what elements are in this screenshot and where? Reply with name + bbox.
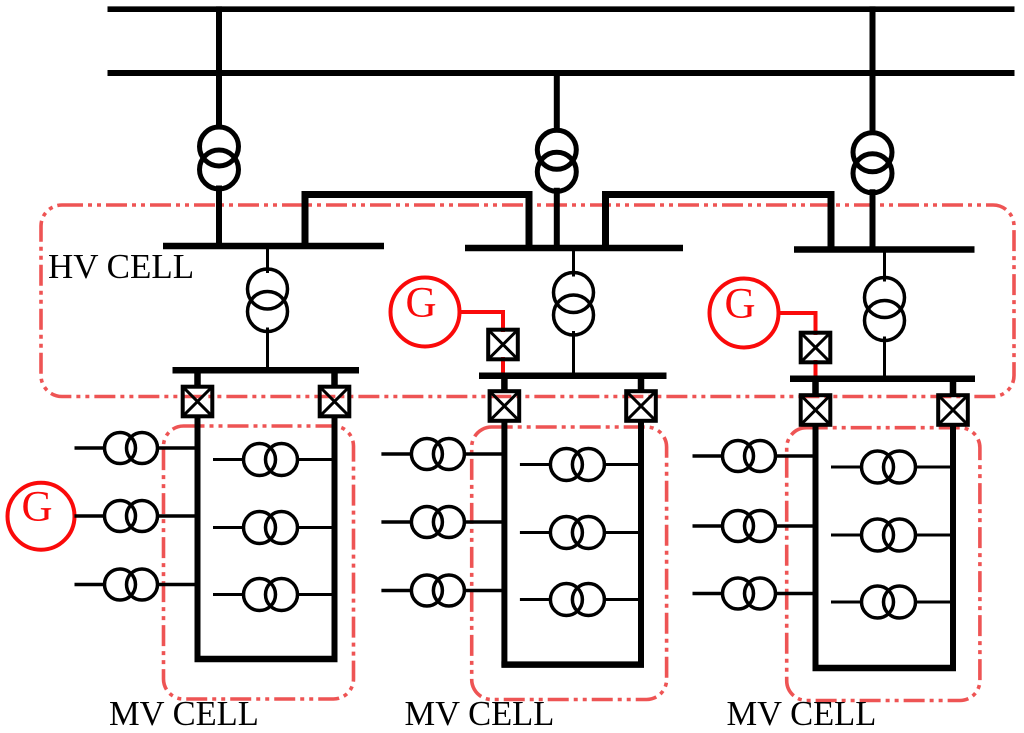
wire feeder into transformer TD13 <box>75 583 106 587</box>
svg-text:MV CELL: MV CELL <box>727 695 877 733</box>
wire feeder into transformer TD31 <box>693 454 724 458</box>
wire transformer TL31 to loop right leg <box>915 466 953 469</box>
wire MV busbar 1 to breaker CB1b <box>331 370 338 387</box>
wire feeder into transformer TD22 <box>381 520 412 524</box>
wire breaker CB1a to loop (left leg) <box>195 416 201 662</box>
wire HV busbar 2 to transformer TM2 <box>572 248 575 277</box>
svg-text:MV CELL: MV CELL <box>109 695 259 733</box>
wire transformer TD23 to loop left leg <box>464 589 505 593</box>
wire stub to transformer TL22 <box>520 531 551 534</box>
wire T1 to HV busbar 1 <box>216 186 222 249</box>
wire G2 to breaker (red) <box>460 312 504 332</box>
breaker CB1a <box>183 387 213 417</box>
wire HV busbar 3 to transformer TM3 <box>883 250 886 282</box>
wire feeder into transformer TD33 <box>693 592 724 596</box>
wire transformer TD21 to loop left leg <box>464 452 505 456</box>
wire HV busbar 1 to transformer TM1 <box>266 246 269 273</box>
wire transformer TD31 to loop left leg <box>775 454 816 458</box>
HV busbar 3 <box>794 246 975 253</box>
wire transformer TL22 to loop right leg <box>604 531 641 534</box>
transformer TD33 (distribution, two windings) <box>723 578 776 609</box>
wire transformer TD33 to loop left leg <box>775 592 816 596</box>
wire feeder into transformer TD11 <box>75 446 106 450</box>
transformer TM1 (HV/MV, two windings) <box>248 269 288 332</box>
tie line busbar1 to busbar2 <box>305 195 529 251</box>
wire transformer TD32 to loop left leg <box>775 524 816 528</box>
wire transformer TL23 to loop right leg <box>604 598 641 601</box>
wire grid bus to transformer T1 <box>216 6 222 128</box>
transformer TD31 (distribution, two windings) <box>723 441 776 472</box>
MV loop bottom bar 3 <box>813 665 957 672</box>
wire T3 to HV busbar 3 <box>870 189 876 251</box>
transformer TL32 (loop transformer, two windings) <box>862 519 916 551</box>
wire transformer TL12 to loop right leg <box>297 526 335 529</box>
wire transformer TL32 to loop right leg <box>915 534 953 537</box>
wire stub to transformer TL31 <box>831 466 862 469</box>
MV busbar 2 <box>479 372 667 379</box>
transformer TD11 (distribution, two windings) <box>105 433 158 464</box>
transformer TD23 (distribution, two windings) <box>411 575 464 606</box>
transformer TL31 (loop transformer, two windings) <box>862 451 916 483</box>
wire grid bus to transformer T3 <box>870 6 876 134</box>
wire stub to transformer TL12 <box>213 526 244 529</box>
tie line busbar2 to busbar3 <box>606 195 832 253</box>
breaker CB2G (generator breaker) <box>488 330 518 360</box>
wire TM2 to MV busbar 2 <box>572 331 575 376</box>
wire MV busbar 3 to breaker CB3a <box>812 379 819 396</box>
wire stub to transformer TL11 <box>213 458 244 461</box>
transformer TL23 (loop transformer, two windings) <box>550 584 604 616</box>
wire T2 to HV busbar 2 <box>554 188 560 250</box>
HV CELL boundary (red dash-dot rounded rect) <box>41 205 1014 397</box>
transformer TD13 (distribution, two windings) <box>105 569 158 600</box>
transformer TD21 (distribution, two windings) <box>411 439 464 470</box>
MV CELL 3 boundary (red dash-dot rounded rect) <box>787 428 980 701</box>
breaker CB3b <box>938 395 968 425</box>
HV busbar 1 <box>163 243 384 250</box>
wire MV busbar 3 to breaker CB3b <box>950 379 957 396</box>
wire breaker CB2a to loop (left leg) <box>501 420 507 667</box>
wire MV busbar 2 to breaker CB2b <box>638 376 645 392</box>
breaker CB3G (generator breaker) <box>801 333 831 363</box>
wire feeder into transformer TD21 <box>381 452 412 456</box>
wire stub to transformer TL32 <box>831 534 862 537</box>
wire G3 to breaker (red) <box>779 313 816 335</box>
transformer TL33 (loop transformer, two windings) <box>862 586 916 618</box>
MV CELL 2 boundary (red dash-dot rounded rect) <box>472 427 667 700</box>
transformer TD32 (distribution, two windings) <box>723 511 776 542</box>
breaker CB2a <box>490 391 520 421</box>
transformer TL21 (loop transformer, two windings) <box>550 449 604 481</box>
wire MV busbar 1 to breaker CB1a <box>194 370 201 387</box>
MV loop bottom bar 1 <box>195 656 338 663</box>
transformer TM3 (HV/MV, two windings) <box>865 278 905 341</box>
wire breaker CB3a to loop (left leg) <box>813 424 819 670</box>
wire transformer TL13 to loop right leg <box>297 593 335 596</box>
generator G3 <box>710 279 779 348</box>
HV grid bus 2 <box>108 70 1015 76</box>
wire breaker CB1b to loop (right leg) <box>332 416 338 662</box>
wire transformer TL21 to loop right leg <box>604 463 641 466</box>
transformer T3 (grid HV/HV, two windings) <box>853 133 892 193</box>
wire feeder into transformer TD12 <box>75 514 106 518</box>
breaker CB2b <box>626 391 656 421</box>
transformer TL12 (loop transformer, two windings) <box>244 512 298 544</box>
transformer T2 (grid HV/HV, two windings) <box>537 130 576 191</box>
HV grid bus 1 (top) <box>108 6 1015 12</box>
MV busbar 1 <box>173 367 360 374</box>
transformer TL11 (loop transformer, two windings) <box>244 444 298 476</box>
wire MV busbar 2 to breaker CB2a <box>501 376 508 392</box>
wire transformer TL33 to loop right leg <box>915 601 953 604</box>
transformer TD12 (distribution, two windings) <box>105 501 158 532</box>
HV busbar 2 <box>465 245 683 252</box>
wire feeder into transformer TD32 <box>693 524 724 528</box>
MV loop bottom bar 2 <box>501 661 644 668</box>
transformer TL13 (loop transformer, two windings) <box>244 579 298 611</box>
svg-text:HV CELL: HV CELL <box>48 247 194 286</box>
transformer TL22 (loop transformer, two windings) <box>550 517 604 549</box>
breaker CB3a <box>801 395 831 425</box>
MV CELL 1 boundary (red dash-dot rounded rect) <box>164 426 354 699</box>
wire stub to transformer TL13 <box>213 593 244 596</box>
wire breaker to MV busbar 3 (red) <box>814 360 818 380</box>
wire breaker to MV busbar 2 (red) <box>501 357 505 377</box>
transformer TD22 (distribution, two windings) <box>411 507 464 538</box>
wire stub to transformer TL21 <box>520 463 551 466</box>
generator G2 <box>391 278 460 347</box>
transformer T1 (grid HV/HV, two windings) <box>200 127 239 189</box>
wire stub to transformer TL23 <box>520 598 551 601</box>
wire stub to transformer TL33 <box>831 601 862 604</box>
svg-text:G: G <box>21 484 52 531</box>
wire TM1 to MV busbar 1 <box>266 328 269 371</box>
svg-text:G: G <box>724 281 755 328</box>
generator G1 <box>8 483 75 550</box>
wire transformer TD13 to loop left leg <box>157 583 198 587</box>
wire breaker CB3b to loop (right leg) <box>950 424 956 670</box>
wire transformer TL11 to loop right leg <box>297 458 335 461</box>
transformer TM2 (HV/MV, two windings) <box>554 273 594 336</box>
wire transformer TD12 to loop left leg <box>157 514 198 518</box>
wire breaker CB2b to loop (right leg) <box>638 420 644 667</box>
svg-text:MV CELL: MV CELL <box>405 695 555 733</box>
wire TM3 to MV busbar 3 <box>883 337 886 379</box>
wire feeder into transformer TD23 <box>381 589 412 593</box>
breaker CB1b <box>320 387 350 417</box>
MV busbar 3 <box>790 375 975 382</box>
svg-text:G: G <box>405 280 436 327</box>
wire transformer TD11 to loop left leg <box>157 446 198 450</box>
wire transformer TD22 to loop left leg <box>464 520 505 524</box>
wire grid bus to transformer T2 <box>554 70 560 132</box>
